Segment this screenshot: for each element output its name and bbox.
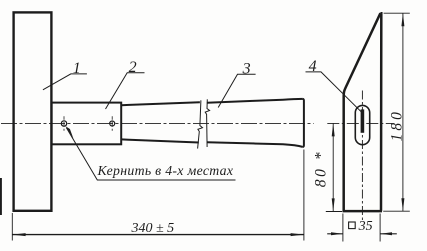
dim 80* arrow top <box>332 123 335 136</box>
dim 180 extension bottom <box>383 210 410 212</box>
square symbol of 35 <box>349 222 356 229</box>
dim 180 extension top <box>384 12 410 14</box>
punch mark circle left <box>61 121 66 126</box>
svg-text:3: 3 <box>242 60 251 77</box>
svg-text:80 *: 80 * <box>313 150 330 188</box>
dim 340 line <box>12 234 304 236</box>
dim 80* bottom extension <box>326 211 342 213</box>
dim 340 arrow left <box>12 233 25 236</box>
ferrule block (pos.2) <box>52 103 122 145</box>
handle section left of break <box>121 102 199 142</box>
handle section right of break <box>207 99 303 147</box>
dim 340 extension right <box>303 150 305 241</box>
dim 340 extension left <box>11 213 13 241</box>
main horizontal centerline <box>1 122 314 124</box>
wedge bar inside slot <box>361 109 365 132</box>
punch circle right vertical tick <box>111 116 113 130</box>
dim 180 arrow bottom <box>401 198 404 211</box>
leader line pos.4 <box>306 72 362 112</box>
side view horizontal centerline <box>327 122 392 124</box>
punch circle left vertical tick <box>63 116 65 130</box>
note leader arrowhead <box>65 126 73 139</box>
hammer head front view <box>14 12 52 210</box>
leader line pos.3 <box>218 74 255 107</box>
svg-text:2: 2 <box>129 59 137 76</box>
leader line pos.2 <box>106 73 145 109</box>
side view vertical centerline <box>361 91 363 221</box>
svg-text:1: 1 <box>73 60 81 77</box>
dim square35 extension right <box>379 214 381 242</box>
svg-text:180: 180 <box>388 109 405 141</box>
svg-text:35: 35 <box>358 219 373 234</box>
break line left <box>198 100 203 148</box>
handle slot (pos.4) <box>355 105 369 144</box>
dim 180 arrow top <box>401 13 404 26</box>
leader line pos.1 <box>43 74 87 90</box>
dim square35 extension left <box>342 214 344 242</box>
note leader with arrow to punch circle <box>66 128 235 180</box>
scan artifact left edge <box>0 178 2 215</box>
break line right <box>205 99 209 147</box>
dim 180 line <box>402 13 404 211</box>
dim 80* arrow bottom <box>332 198 335 211</box>
side view outline <box>343 13 382 211</box>
handle end cap <box>303 99 304 147</box>
dim 340 arrow right <box>291 233 304 236</box>
dim 80* line <box>332 123 334 211</box>
dim square35 arrow left <box>331 232 343 235</box>
dim square35 line segments <box>327 233 397 235</box>
dim square35 arrow right <box>380 232 392 235</box>
svg-text:4: 4 <box>309 58 317 75</box>
svg-text:340 ± 5: 340 ± 5 <box>131 221 175 236</box>
svg-text:Кернить в 4-х местах: Кернить в 4-х местах <box>97 163 234 178</box>
punch mark circle right <box>110 121 115 126</box>
